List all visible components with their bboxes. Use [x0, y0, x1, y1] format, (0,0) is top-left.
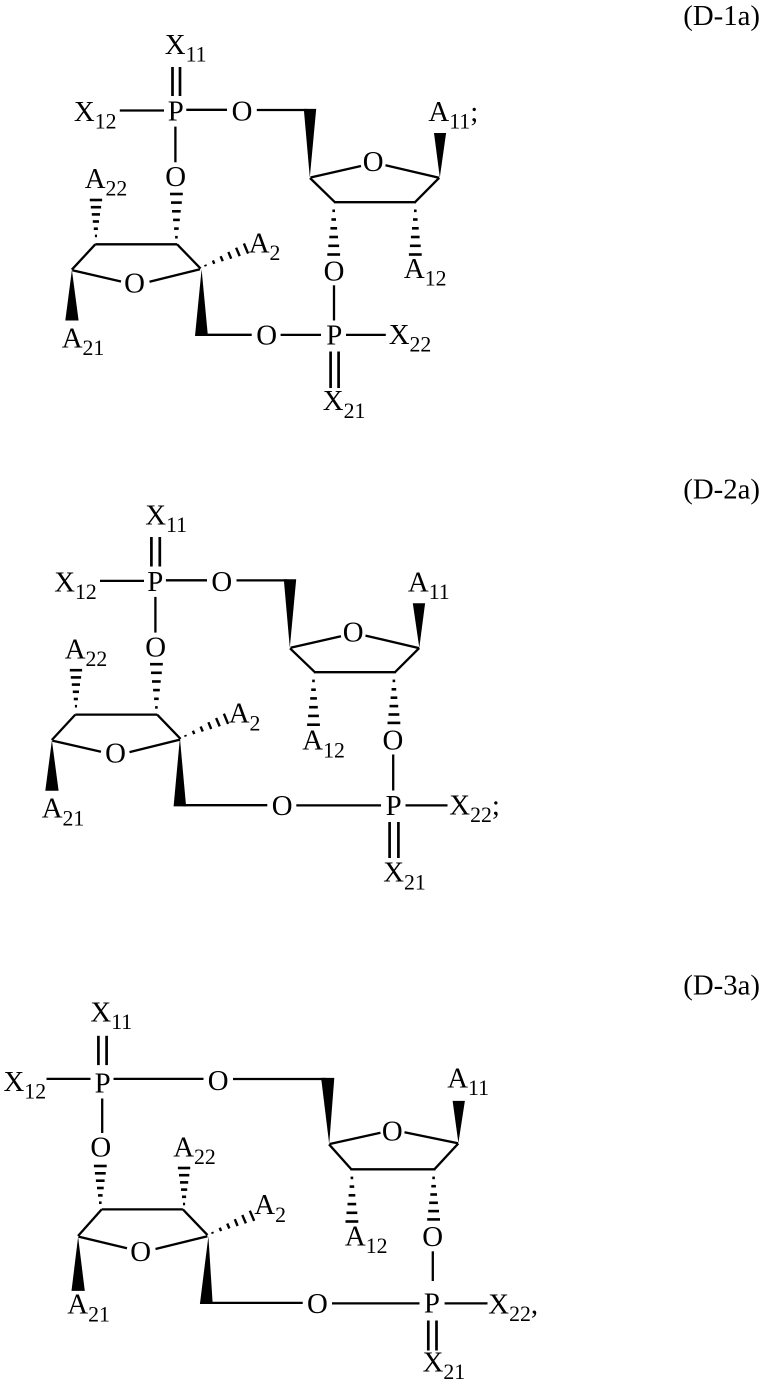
hashed bond C3'-A12 D-3a — [346, 1177, 359, 1223]
svg-text:O: O — [124, 267, 145, 299]
hashed bond A2 D-3a — [212, 1211, 254, 1234]
ring bond C2-C1L left ring D-1a — [72, 244, 96, 269]
bold wedge C5'-C4' D-1a — [304, 109, 316, 178]
bond X12-P1 D-2a — [100, 580, 144, 582]
ring bond O4'-C1' right ring D-3a — [405, 1132, 459, 1143]
bond C5-O3 D-1a — [203, 334, 252, 336]
bold wedge C1'-A11 D-3a — [453, 1101, 465, 1143]
svg-text:O: O — [272, 790, 293, 822]
ring bond C2-C3 left ring D-3a — [102, 1208, 183, 1210]
ring bond C3'-C2' D-1a — [334, 201, 416, 203]
ring bond C3-C1R left ring D-1a — [177, 244, 201, 268]
bold wedge C1'-A11 D-1a — [434, 133, 446, 178]
ring bond C4'-C3' D-2a — [290, 648, 315, 672]
ring bond C4'-C3' D-1a — [310, 178, 335, 202]
svg-text:O: O — [256, 319, 277, 351]
svg-text:O: O — [343, 617, 364, 649]
bold wedge A21 D-1a — [65, 270, 78, 321]
hashed bond A22 D-2a — [70, 669, 82, 708]
ring bond C3'-C2' D-3a — [350, 1168, 435, 1170]
svg-text:P: P — [95, 1067, 111, 1099]
svg-text:O: O — [363, 146, 384, 178]
ring bond C2'-C1' D-1a — [415, 178, 439, 202]
svg-text:O: O — [422, 1221, 443, 1253]
svg-text:O: O — [211, 566, 232, 598]
bond P1-O6 D-2a — [154, 597, 156, 633]
ring bond C4'-O4' right ring D-3a — [330, 1133, 381, 1144]
svg-text:P: P — [326, 319, 342, 351]
bold wedge C1-C5 left ring D-1a — [195, 269, 208, 336]
svg-text:O: O — [383, 724, 404, 756]
bond O1-C5' D-3a — [233, 1078, 326, 1080]
hashed bond C3'-A12 D-2a — [307, 680, 320, 726]
ring bond C1R-O5 left ring D-1a — [150, 269, 201, 282]
ring bond C1L-O5 left ring D-1a — [72, 270, 121, 281]
svg-text:P: P — [168, 96, 184, 128]
hashed bond A2 D-2a — [185, 714, 228, 737]
bond O1-C5' D-1a — [257, 109, 307, 111]
double bond P2=X21 D-2a — [390, 822, 399, 858]
bold wedge C1-C5 left ring D-2a — [174, 738, 187, 807]
bold wedge C5'-C4' D-2a — [284, 579, 296, 648]
ring bond C1L-O5 left ring D-2a — [52, 741, 101, 752]
bond P2-X22 D-2a — [406, 804, 448, 806]
hashed bond C2'-O2 D-2a — [388, 680, 401, 725]
hashed bond C2'-A12 D-1a — [409, 210, 422, 256]
bond P1-O1 D-2a — [166, 579, 207, 581]
ring bond C1R-O5 left ring D-3a — [156, 1236, 208, 1249]
svg-text:(D-3a): (D-3a) — [683, 970, 759, 1002]
ring bond C3-C1R left ring D-2a — [157, 715, 181, 739]
svg-text:O: O — [324, 256, 345, 288]
hashed bond O6 D-2a — [150, 663, 163, 709]
ring bond C4'-C3' D-3a — [329, 1144, 351, 1169]
hashed bond A2 D-1a — [205, 243, 248, 266]
hashed bond C3'-O2 D-1a — [327, 210, 340, 256]
double bond P1=X11 D-1a — [173, 67, 181, 96]
bold wedge C5'-C4' D-3a — [321, 1078, 334, 1144]
ring bond O4'-C1' right ring D-1a — [386, 165, 440, 178]
bond P2-X22 D-3a — [445, 1302, 488, 1304]
ring bond C4'-O4' right ring D-2a — [291, 636, 342, 648]
bond P1-O6 D-1a — [174, 127, 176, 163]
ring bond C2-C3 left ring D-2a — [75, 713, 157, 715]
bold wedge A21 D-2a — [45, 740, 58, 791]
svg-text:O: O — [232, 96, 253, 128]
bond O2-P2 D-3a — [432, 1251, 434, 1281]
ring bond O4'-C1' right ring D-2a — [366, 636, 420, 649]
bond P2-X22 D-1a — [346, 334, 386, 336]
ring bond C2-C1L left ring D-3a — [78, 1209, 102, 1236]
bond C5-O3 D-2a — [183, 804, 267, 806]
hashed bond A22 D-3a — [178, 1167, 190, 1206]
svg-text:P: P — [424, 1288, 440, 1320]
hashed bond O6 D-1a — [170, 193, 183, 239]
bond P1-O1 D-1a — [186, 109, 227, 111]
bond O3-P2 D-3a — [332, 1302, 420, 1304]
svg-text:O: O — [90, 1131, 111, 1163]
bold wedge A21 D-3a — [72, 1237, 85, 1291]
bond X12-P1 D-1a — [120, 109, 164, 111]
svg-text:O: O — [105, 738, 126, 770]
bond C5-O3 D-3a — [209, 1302, 303, 1304]
bond O3-P2 D-1a — [281, 334, 321, 336]
ring bond C1R-O5 left ring D-2a — [130, 740, 181, 753]
bold wedge C1'-A11 D-2a — [413, 603, 425, 648]
hashed bond A22 D-1a — [90, 199, 102, 238]
ring bond C1L-O5 left ring D-3a — [79, 1237, 128, 1249]
svg-text:O: O — [130, 1236, 151, 1268]
double bond P1=X11 D-3a — [98, 1036, 106, 1065]
svg-text:O: O — [145, 632, 166, 664]
ring bond C4'-O4' right ring D-1a — [311, 166, 362, 178]
ring bond C3-C1R left ring D-3a — [183, 1209, 208, 1235]
bond P1-O1 D-3a — [114, 1078, 204, 1080]
svg-text:(D-2a): (D-2a) — [683, 474, 759, 506]
ring bond C3'-C2' D-2a — [314, 671, 396, 673]
double bond P2=X21 D-3a — [428, 1321, 436, 1351]
ring bond C2-C3 left ring D-1a — [95, 243, 177, 245]
bond O3-P2 D-2a — [296, 804, 381, 806]
bond O2-P2 D-2a — [392, 755, 394, 791]
svg-text:(D-1a): (D-1a) — [683, 0, 759, 32]
bond X12-P1 D-3a — [47, 1078, 91, 1080]
double bond P2=X21 D-1a — [331, 352, 339, 389]
bond P1-O6 D-3a — [101, 1099, 103, 1134]
bond O1-C5' D-2a — [237, 579, 288, 581]
bold wedge C1-C5 left ring D-3a — [200, 1236, 213, 1304]
ring bond C2'-C1' D-2a — [395, 648, 419, 672]
ring bond C2'-C1' D-3a — [434, 1144, 458, 1170]
svg-text:O: O — [307, 1288, 328, 1320]
svg-text:P: P — [147, 566, 163, 598]
bond O2-P2 D-1a — [333, 285, 335, 320]
svg-text:O: O — [382, 1115, 403, 1147]
hashed bond O6 D-3a — [94, 1165, 107, 1204]
hashed bond C2'-O2 D-3a — [427, 1177, 440, 1221]
double bond P1=X11 D-2a — [151, 537, 159, 567]
svg-text:O: O — [208, 1065, 229, 1097]
svg-text:O: O — [165, 161, 186, 193]
ring bond C2-C1L left ring D-2a — [52, 715, 76, 740]
svg-text:P: P — [386, 790, 402, 822]
